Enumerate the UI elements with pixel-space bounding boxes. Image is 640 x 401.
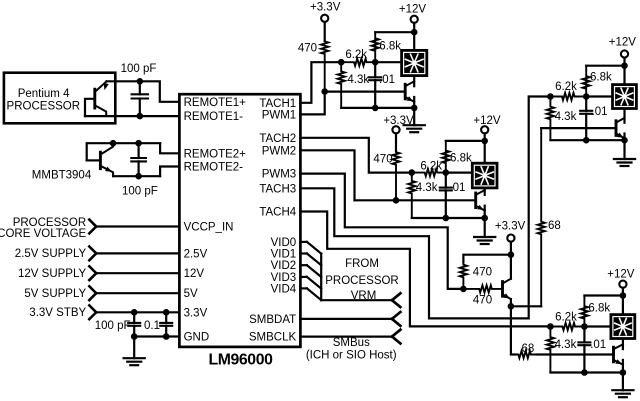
node buffer base junction (460, 286, 467, 293)
resistor 6.2k (fan1) (341, 49, 375, 66)
resistor 68 (fan3 base) (538, 128, 561, 306)
svg-text:VID2: VID2 (271, 260, 297, 272)
junction .01 bottom (fan3) (583, 137, 590, 144)
wire buffer collector (510, 255, 512, 279)
pin label 12V (184, 268, 205, 280)
wire GND pin rail (134, 335, 179, 337)
svg-text:GND: GND (184, 332, 210, 344)
ground symbol fan2 (474, 218, 495, 244)
power terminal +12V (fan3) (609, 37, 637, 66)
node fan3 tach junction (583, 93, 590, 100)
svg-text:+12V: +12V (607, 268, 635, 280)
node fan1 emitter junction (411, 105, 418, 112)
label PROCESSOR (VRM) (325, 275, 399, 287)
transistor Q6 (PWM3 buffer) (503, 279, 511, 299)
resistor 6.8k (fan2) (442, 141, 472, 173)
resistor 6.8k (fan1) (372, 32, 402, 62)
transistor Q5 (fan3 driver) (616, 118, 625, 138)
wire fan1 emitter (413, 97, 415, 108)
label 2.5V SUPPLY (15, 248, 87, 260)
svg-text:+3.3V: +3.3V (495, 221, 526, 233)
ground symbol left (124, 337, 145, 366)
wire fan2 emitter (484, 206, 486, 218)
wire REMOTE2- to IC (160, 167, 179, 177)
transistor Q2 MMBT3904 (100, 143, 113, 176)
label VRM (351, 290, 377, 302)
pin label REMOTE1+ (184, 97, 247, 109)
pin label PWM3 (262, 169, 297, 181)
wire 2.5V SUPPLY to IC (96, 252, 179, 254)
wire TACH4 route (300, 212, 550, 327)
svg-text:.01: .01 (379, 74, 395, 86)
node fan2 emitter junction (481, 215, 488, 222)
node fan3 emitter junction (621, 137, 628, 144)
svg-text:4.3k: 4.3k (416, 182, 438, 194)
wire +3.3V to 470 pull-up (463, 255, 511, 262)
svg-text:PROCESSOR: PROCESSOR (325, 275, 399, 287)
svg-text:6.8k: 6.8k (588, 302, 610, 314)
wire Q1 base loop (85, 99, 95, 116)
label 100 pF (C1) (121, 63, 157, 75)
pin label 3.3V (184, 307, 208, 319)
svg-text:+12V: +12V (473, 115, 501, 127)
resistor 6.2k (fan2) (412, 161, 446, 177)
power terminal +12V (fan4) (607, 268, 635, 295)
wire TACH1 to divider (300, 62, 341, 103)
svg-text:SMBDAT: SMBDAT (249, 314, 296, 326)
pin label REMOTE2- (184, 162, 244, 174)
svg-text:68: 68 (548, 220, 561, 232)
wire VID3 bus entry diagonal (307, 277, 321, 289)
junction C1 top (137, 78, 144, 85)
resistor 4.3k (fan4) (547, 327, 577, 373)
pin label VID2 (271, 260, 297, 272)
svg-text:470: 470 (473, 295, 492, 307)
wire REMOTE1+ net (Q1 collector to IC) (107, 81, 180, 102)
svg-text:6.8k: 6.8k (379, 41, 401, 53)
wire 6.8k to +12V rail (fan2) (446, 140, 485, 142)
svg-text:VID1: VID1 (271, 249, 297, 261)
capacitor C4 0.1 (160, 312, 172, 336)
svg-text:100 pF: 100 pF (95, 320, 131, 332)
wire 12V SUPPLY to IC (96, 272, 179, 274)
resistor 470 (PWM1 pull-up) (298, 41, 328, 92)
wire PROCESSOR CORE VOLTAGE to IC (96, 225, 179, 227)
junction C3 bottom (GND) (131, 333, 138, 340)
wire fan4 emitter rail (550, 371, 623, 373)
power terminal +12V (fan1) (399, 4, 427, 33)
resistor 470 (PWM2 pull-up) (373, 151, 399, 200)
junction C3 top (3.3V) (131, 309, 138, 316)
node PWM1/470 junction (321, 88, 328, 95)
wire fan3 emitter rail (550, 139, 624, 141)
junction C2 top (135, 140, 142, 147)
svg-text:470: 470 (473, 266, 492, 278)
svg-text:REMOTE1+: REMOTE1+ (184, 97, 247, 109)
fan M2 (472, 163, 497, 188)
transistor Q3 (fan1 driver) (405, 81, 414, 101)
wire 5V SUPPLY to IC (96, 292, 179, 294)
resistor 6.2k (fan4) (550, 312, 584, 331)
label SMBus (333, 337, 370, 349)
resistor 4.3k (fan1) (338, 62, 370, 108)
connector chevron VRM (392, 293, 400, 307)
fan M3 (613, 85, 637, 109)
svg-text:3.3V STBY: 3.3V STBY (29, 307, 86, 319)
capacitor C2 100 pF (131, 143, 146, 176)
transistor Q7 (fan4 driver) (614, 344, 623, 364)
wire fan4 emitter (622, 360, 624, 373)
label LM96000 (209, 351, 274, 368)
power terminal +12V (fan2) (473, 115, 501, 141)
wire buffer emitter (510, 299, 512, 306)
wire fan2 tach to fan (446, 172, 471, 174)
svg-text:PWM3: PWM3 (262, 169, 297, 181)
svg-text:SMBus: SMBus (333, 337, 370, 349)
wire 68 to fan4 base (537, 353, 614, 355)
wire fan1 collector (413, 77, 415, 86)
resistor 68 (fan4 base) (515, 343, 537, 358)
wire SMBCLK (300, 336, 392, 338)
Pentium 4 PROCESSOR box (4, 73, 115, 124)
wire +12V to fan1 top (413, 32, 415, 49)
wire VID0 stub (300, 241, 307, 243)
pin label VID4 (271, 283, 297, 295)
op-amp U1 LM96000 fan controller IC body (179, 94, 300, 347)
wire TACH2 to divider (300, 138, 411, 173)
wire VID4 bus entry diagonal (307, 288, 321, 300)
wire PWM1 to base (300, 92, 324, 115)
wire 6.8k to +12V rail (fan3) (586, 65, 624, 67)
pin label REMOTE1- (184, 111, 244, 123)
node TACH1 divider junction (338, 59, 345, 66)
svg-text:4.3k: 4.3k (555, 111, 577, 123)
node buffer collector junction (508, 251, 515, 258)
pin label VCCP_IN (184, 222, 234, 234)
wire SMBDAT (300, 318, 392, 320)
ground symbol fan1 (404, 108, 425, 132)
junction C4 top (3.3V) (163, 309, 170, 316)
resistor 6.2k (fan3) (550, 81, 586, 100)
resistor 470 (buffer pull-up) (460, 262, 492, 289)
capacitor .01 (fan1) (369, 62, 395, 108)
label 12V SUPPLY (18, 268, 87, 280)
pin label PWM2 (262, 145, 297, 157)
wire REMOTE1- net (Q1 emitter to IC) (85, 115, 179, 117)
svg-text:+3.3V: +3.3V (383, 115, 414, 127)
svg-text:SMBCLK: SMBCLK (249, 332, 297, 344)
wire +12V to fan2 top (484, 141, 486, 162)
svg-text:MMBT3904: MMBT3904 (32, 169, 92, 181)
svg-text:VID0: VID0 (271, 237, 297, 249)
svg-text:VRM: VRM (351, 290, 377, 302)
wire TACH3 route (300, 97, 550, 319)
wire fan3 tach to fan (586, 95, 611, 97)
svg-text:100 pF: 100 pF (121, 63, 157, 75)
wire VID4 stub (300, 287, 307, 289)
label 100 pF (C2) (122, 186, 158, 198)
junction C1 bottom (137, 113, 144, 120)
svg-text:3.3V: 3.3V (184, 307, 208, 319)
resistor 6.8k (fan4) (581, 296, 611, 327)
capacitor .01 (fan4) (578, 327, 606, 373)
svg-text:VCCP_IN: VCCP_IN (184, 222, 234, 234)
fan M4 (611, 315, 635, 339)
wire VID3 stub (300, 276, 307, 278)
resistor 6.8k (fan3) (583, 66, 612, 97)
svg-text:PROCESSOR: PROCESSOR (7, 101, 81, 113)
svg-text:+3.3V: +3.3V (310, 2, 341, 14)
wire fan2 collector (484, 189, 486, 195)
svg-text:Pentium 4: Pentium 4 (18, 88, 70, 100)
transistor Q4 (fan2 driver) (476, 190, 485, 210)
svg-text:.01: .01 (590, 339, 606, 351)
svg-text:REMOTE2-: REMOTE2- (184, 162, 244, 174)
svg-text:470: 470 (373, 153, 392, 165)
wire VID1 bus entry diagonal (307, 254, 321, 266)
wire fan2 gnd rail (412, 217, 485, 219)
resistor 4.3k (fan3) (547, 97, 577, 141)
junction .01 bottom (fan1) (372, 105, 379, 112)
svg-text:0.1: 0.1 (144, 320, 160, 332)
svg-text:68: 68 (522, 343, 535, 355)
junction C2 bottom (135, 173, 142, 180)
wire 3.3V STBY to IC (96, 311, 179, 313)
pin label 5V (184, 288, 198, 300)
wire fan4 tach to fan (584, 325, 609, 327)
wire VID bus vertical (320, 254, 322, 301)
wire Q2 collector top rail (87, 143, 160, 160)
wire fan1 base drive (325, 90, 406, 92)
svg-text:.01: .01 (592, 106, 608, 118)
power terminal +3.3V (fan2 pull-up) (383, 115, 414, 151)
pin label TACH1 (259, 98, 296, 110)
wire fan1 emitter rail (341, 107, 414, 109)
power terminal +3.3V (buffer) (495, 221, 526, 255)
wire fan3 emitter (623, 134, 625, 141)
svg-text:PWM2: PWM2 (262, 145, 297, 157)
wire VID2 bus entry diagonal (307, 265, 321, 277)
capacitor .01 (fan3) (580, 97, 607, 141)
svg-text:VID3: VID3 (271, 272, 297, 284)
wire VID1 stub (300, 252, 307, 254)
wire emitter down to 68 horizontal (511, 306, 515, 354)
wire PWM3 route (300, 174, 463, 289)
node PWM2/470 junction (393, 197, 400, 204)
ground symbol fan3 (614, 140, 635, 166)
svg-text:TACH4: TACH4 (259, 207, 296, 219)
svg-text:6.2k: 6.2k (420, 161, 442, 173)
node TACH2 divider junction (409, 169, 416, 176)
label Pentium 4 (18, 88, 70, 100)
wire fan1 tach to fan (375, 61, 400, 63)
junction C4 bottom (GND) (163, 333, 170, 340)
capacitor .01 (fan2) (440, 173, 466, 218)
junction +12V rail fan3 (621, 62, 628, 69)
connector chevron SMBCLK (392, 330, 400, 344)
wire +12V to fan4 top (622, 296, 624, 314)
svg-text:.01: .01 (449, 182, 465, 194)
ground symbol fan4 (612, 373, 633, 398)
connector chevron 2.5V SUPPLY (89, 247, 96, 261)
node fan4 tach junction (581, 323, 588, 330)
connector chevron 12V SUPPLY (89, 266, 96, 280)
pin label 2.5V (184, 248, 208, 260)
node TACH4 divider junction (547, 323, 554, 330)
fan M1 (402, 50, 427, 75)
wire fan3 collector (623, 110, 625, 123)
junction +12V rail fan4 (620, 292, 627, 299)
junction Q2 collector (110, 140, 117, 147)
svg-text:VID4: VID4 (271, 283, 297, 295)
wire 6.8k to +12V rail (fan1) (375, 31, 414, 33)
svg-text:2.5V SUPPLY: 2.5V SUPPLY (15, 248, 87, 260)
label PROCESSOR (core voltage line 1) (13, 217, 87, 229)
pin label REMOTE2+ (184, 148, 247, 160)
label 0.1 (C4) (144, 320, 160, 332)
pin label SMBDAT (249, 314, 296, 326)
connector chevron SMBDAT (392, 312, 400, 326)
junction +12V rail fan1 (411, 29, 418, 36)
node fan4 emitter junction (620, 369, 627, 376)
svg-text:+12V: +12V (609, 37, 637, 49)
svg-text:+12V: +12V (399, 4, 427, 16)
svg-text:6.8k: 6.8k (590, 72, 612, 84)
svg-text:CORE VOLTAGE: CORE VOLTAGE (0, 228, 87, 240)
svg-text:2.5V: 2.5V (184, 248, 208, 260)
svg-text:PWM1: PWM1 (262, 109, 297, 121)
junction .01 bottom (fan2) (443, 215, 450, 222)
wire VID2 stub (300, 264, 307, 266)
pin label VID1 (271, 249, 297, 261)
svg-text:REMOTE1-: REMOTE1- (184, 111, 244, 123)
wire 6.8k to +12V rail (fan4) (584, 294, 623, 296)
svg-text:4.3k: 4.3k (347, 74, 369, 86)
pin label TACH3 (259, 183, 296, 195)
svg-text:LM96000: LM96000 (209, 351, 274, 368)
svg-text:12V SUPPLY: 12V SUPPLY (18, 268, 87, 280)
wire REMOTE2+ to IC (160, 143, 179, 153)
wire Q2 base (87, 159, 101, 161)
svg-text:12V: 12V (184, 268, 205, 280)
capacitor C3 100 pF (128, 312, 140, 336)
svg-text:FROM: FROM (345, 258, 379, 270)
svg-text:470: 470 (298, 43, 317, 55)
svg-text:TACH2: TACH2 (259, 133, 296, 145)
pin label VID3 (271, 272, 297, 284)
pin label TACH4 (259, 207, 296, 219)
label ICH or SIO Host (306, 350, 397, 362)
pin label SMBCLK (249, 332, 297, 344)
wire fan4 collector (622, 340, 624, 349)
node buffer emitter junction (508, 303, 515, 310)
pin label VID0 (271, 237, 297, 249)
wire emitter to 68 vertical (511, 305, 541, 307)
svg-text:TACH1: TACH1 (259, 98, 296, 110)
junction .01 bottom (fan4) (581, 369, 588, 376)
svg-text:100 pF: 100 pF (122, 186, 158, 198)
wire Q2 emitter bottom rail (113, 175, 160, 177)
wire fan3 base drive (541, 127, 616, 129)
svg-text:5V: 5V (184, 288, 198, 300)
svg-text:5V SUPPLY: 5V SUPPLY (24, 288, 86, 300)
svg-text:(ICH or SIO Host): (ICH or SIO Host) (306, 350, 397, 362)
wire +12V to fan3 top (623, 66, 625, 84)
connector chevron 5V SUPPLY (89, 286, 96, 300)
resistor 470 (buffer series) (463, 285, 502, 306)
capacitor C1 100 pF (132, 81, 148, 116)
svg-text:4.3k: 4.3k (555, 339, 577, 351)
pin label PWM1 (262, 109, 297, 121)
node TACH3 divider junction (547, 93, 554, 100)
power terminal +3.3V (fan1 pull-up) (310, 2, 341, 42)
pin label TACH2 (259, 133, 296, 145)
svg-text:6.2k: 6.2k (555, 312, 577, 324)
connector chevron PROCESSOR CORE VOLTAGE (89, 220, 96, 234)
wire VRM bus to connector (321, 299, 392, 301)
node fan2 tach junction (443, 169, 450, 176)
label 3.3V STBY (29, 307, 86, 319)
label CORE VOLTAGE (line 2) (0, 228, 87, 240)
label PROCESSOR (7, 101, 81, 113)
svg-text:REMOTE2+: REMOTE2+ (184, 148, 247, 160)
wire PWM2 to base (300, 150, 354, 200)
wire VID0 bus entry diagonal (307, 242, 321, 254)
svg-text:6.2k: 6.2k (555, 81, 577, 93)
label 100 pF (C3) (95, 320, 131, 332)
label 5V SUPPLY (24, 288, 86, 300)
pin label GND (184, 332, 210, 344)
svg-text:6.2k: 6.2k (345, 49, 367, 61)
svg-text:6.8k: 6.8k (450, 153, 472, 165)
label MMBT3904 (32, 169, 92, 181)
svg-text:TACH3: TACH3 (259, 183, 296, 195)
node fan1 tach junction (372, 59, 379, 66)
resistor 4.3k (fan2) (408, 173, 438, 218)
connector chevron 3.3V STBY (89, 305, 96, 319)
transistor Q1 thermal sensor in Pentium 4 (95, 81, 109, 116)
label FROM (345, 258, 379, 270)
wire fan2 base drive (355, 199, 476, 201)
junction +12V rail fan2 (481, 138, 488, 145)
